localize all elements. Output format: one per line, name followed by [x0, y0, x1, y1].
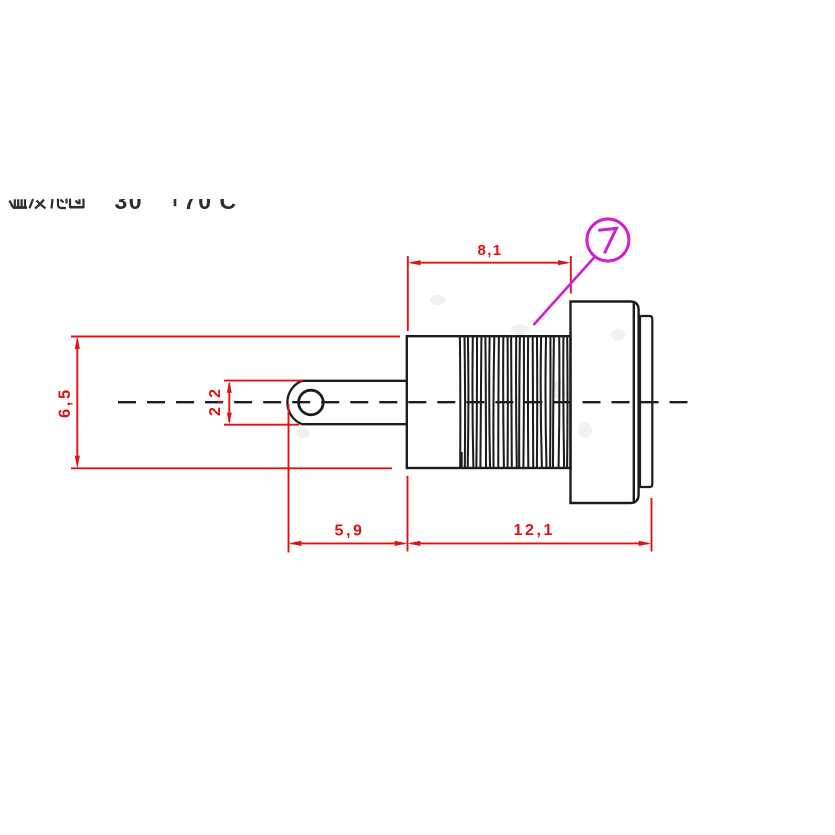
svg-text:70: 70: [184, 188, 214, 214]
balloon 7 digit: [598, 228, 616, 253]
barrel body: [407, 336, 571, 468]
dim 6,5 label: [56, 387, 74, 418]
centerline: [118, 401, 688, 403]
balloon 7 leader line: [534, 257, 595, 325]
svg-text:2,2: 2,2: [207, 387, 224, 416]
dim 2,2 label: [207, 387, 224, 416]
lug hole: [299, 390, 324, 415]
svg-text:C: C: [220, 188, 237, 214]
dim 8,1 extension lines: [408, 256, 571, 331]
dim 2,2 line + arrows: [227, 381, 232, 424]
watermark blobs: [296, 295, 625, 438]
dim 5,9 extension lines: [289, 404, 408, 553]
dim 6,5 line + arrows: [75, 337, 80, 469]
dim 8,1 line + arrows: [408, 260, 570, 265]
dim 6,5 extension lines: [71, 337, 400, 469]
plus sign stub: [174, 199, 177, 206]
clipped title text: 温度范围 bottoms (hand drawn): [10, 199, 84, 209]
thread root tick: [460, 452, 463, 468]
svg-text:6,5: 6,5: [56, 387, 74, 418]
dim 2,2 extension lines: [224, 381, 303, 425]
dim 5,9 line + arrows: [289, 541, 407, 546]
flange: [571, 302, 639, 504]
dim 12,1 line + arrows: [408, 541, 651, 546]
svg-text:8,1: 8,1: [478, 242, 503, 259]
dim 5,9 label: [335, 523, 365, 540]
svg-text:12,1: 12,1: [514, 522, 556, 539]
dim 8,1 label: [478, 242, 503, 259]
balloon 7 circle: [587, 219, 629, 261]
thread hatching: [460, 337, 568, 467]
end cap: [640, 316, 652, 487]
lug tab: [287, 381, 407, 424]
svg-text:5,9: 5,9: [335, 523, 365, 540]
dim 12,1 extension line right: [651, 498, 653, 552]
svg-text:30: 30: [115, 188, 144, 214]
dim 12,1 label: [514, 522, 556, 539]
